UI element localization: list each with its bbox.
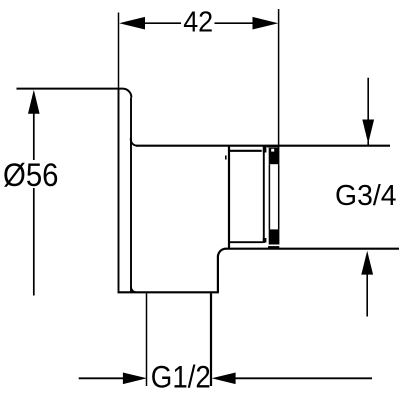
diameter 56 up arrow	[28, 90, 40, 114]
seal holder bottom lip	[268, 246, 279, 248]
label diameter 56 halo	[2, 160, 60, 188]
flange bottom-right fillet	[131, 287, 137, 292]
dimension 42 line left segment	[142, 22, 181, 24]
dimension 42 left arrowhead	[119, 17, 145, 30]
down pipe left edge / G1/2 left extension line	[146, 293, 148, 386]
G3/4 up arrow shaft	[366, 273, 368, 317]
seal groove left line	[268, 164, 270, 229]
connector end face top chamfer	[263, 146, 267, 153]
diameter 56 extension line / flange top edge	[17, 88, 123, 90]
flange-to-body top fillet	[131, 138, 137, 146]
svg-text:Ø56: Ø56	[3, 157, 59, 193]
seal holder top lip	[267, 145, 279, 148]
down pipe right edge / G1/2 right extension line	[210, 293, 212, 386]
dimension 42 right arrowhead	[253, 17, 279, 30]
G3/4 up arrowhead	[361, 251, 373, 275]
G1/2 right arrowhead	[212, 373, 236, 385]
body top line / G3/4 upper extension line	[136, 145, 390, 147]
dimension 42 line right segment	[215, 22, 257, 24]
seal groove right line	[278, 164, 280, 229]
connector top edge	[229, 150, 262, 152]
wall flange right edge	[130, 97, 132, 292]
body bottom face	[118, 291, 219, 293]
G3/4 down arrow shaft	[367, 78, 369, 146]
connector face	[228, 146, 230, 248]
G1/2 right arrow line	[234, 377, 372, 379]
G3/4 down arrowhead	[362, 120, 374, 144]
wall flange left edge	[118, 89, 120, 293]
dimension 42 left extension line	[118, 13, 120, 89]
connector bottom edge	[229, 241, 263, 243]
connector face relief tick	[225, 156, 227, 160]
G1/2 left arrow line	[79, 377, 125, 379]
body bottom S-curve to down pipe	[218, 249, 226, 293]
svg-text:42: 42	[183, 7, 213, 39]
body bottom line / G3/4 lower extension line	[225, 248, 399, 250]
G1/2 left arrowhead	[123, 373, 147, 385]
wall flange top-right corner arc	[123, 89, 132, 98]
o-ring seal top block	[269, 148, 280, 164]
connector end face bottom chamfer	[263, 238, 267, 243]
diameter 56 dimension line	[33, 105, 35, 296]
svg-text:G3/4: G3/4	[335, 180, 397, 212]
svg-text:G1/2: G1/2	[151, 359, 211, 395]
o-ring seal top groove notch	[271, 149, 274, 152]
dimension 42 right extension line	[278, 9, 280, 148]
o-ring seal bottom block	[269, 229, 280, 244]
connector end face	[263, 146, 265, 243]
